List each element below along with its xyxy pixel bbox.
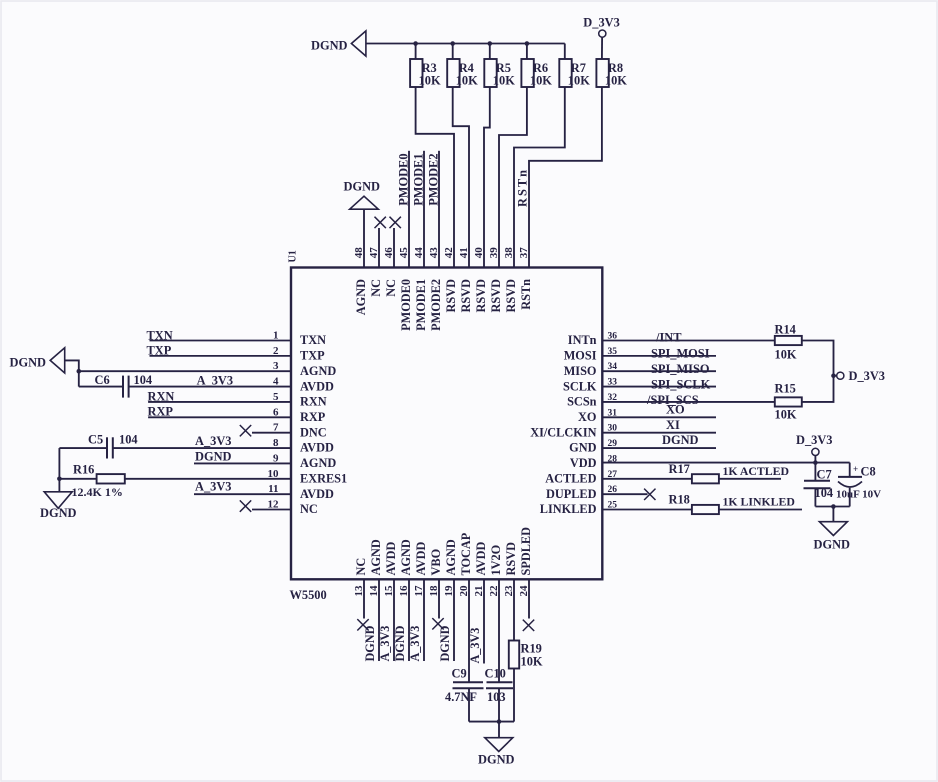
wire R14 to D_3V3: [802, 341, 834, 376]
svg-text:103: 103: [487, 690, 506, 704]
svg-text:10uF 10V: 10uF 10V: [836, 489, 881, 501]
wire top rail: [366, 43, 565, 45]
net PMODE1 wire pin 44: [423, 151, 425, 268]
net SPI_MISO wire pin 34: [602, 370, 716, 372]
resistor R4 10K: [452, 44, 454, 60]
svg-text:RSTn: RSTn: [516, 168, 530, 207]
svg-text:DGND: DGND: [814, 537, 851, 551]
wire R5 to chip pin: [484, 87, 490, 268]
svg-text:DGND: DGND: [393, 625, 407, 661]
capacitor C8 10uF 10V: [849, 463, 851, 477]
svg-text:NC: NC: [369, 279, 383, 297]
net TXN wire pin 1: [150, 340, 292, 342]
svg-text:NC: NC: [384, 279, 398, 297]
svg-text:GND: GND: [569, 441, 596, 455]
svg-text:104: 104: [134, 373, 153, 387]
svg-text:VDD: VDD: [570, 456, 597, 470]
svg-text:A_3V3: A_3V3: [195, 434, 231, 448]
svg-text:40: 40: [473, 247, 485, 259]
wire R6 to chip pin: [499, 87, 527, 268]
svg-text:SPI_MISO: SPI_MISO: [651, 362, 710, 376]
svg-text:C7: C7: [817, 467, 832, 481]
svg-text:DGND: DGND: [662, 433, 699, 447]
svg-text:10K: 10K: [568, 74, 590, 88]
wire C5 to R16 junction: [58, 448, 60, 491]
net DGND wire pin 9: [194, 462, 291, 464]
net XO wire pin 31: [602, 416, 716, 418]
svg-text:R14: R14: [775, 323, 796, 337]
svg-text:4.7NF: 4.7NF: [445, 690, 477, 704]
svg-text:W5500: W5500: [290, 588, 327, 602]
svg-text:DUPLED: DUPLED: [546, 487, 597, 501]
svg-text:10K: 10K: [775, 348, 797, 362]
wire R3 to chip pin: [416, 87, 454, 268]
resistor R8 10K: [596, 59, 608, 87]
svg-text:DGND: DGND: [40, 506, 77, 520]
svg-text:A_3V3: A_3V3: [408, 626, 422, 662]
wire bottom ground rail: [469, 721, 514, 723]
svg-text:R16: R16: [73, 462, 94, 476]
svg-text:+: +: [853, 464, 858, 474]
svg-text:10K: 10K: [521, 655, 543, 669]
svg-text:A_3V3: A_3V3: [378, 626, 392, 662]
svg-text:/INT: /INT: [655, 330, 682, 344]
svg-text:RXN: RXN: [300, 395, 327, 409]
net PMODE0 wire pin 45: [408, 151, 410, 268]
svg-text:RSTn: RSTn: [519, 279, 533, 310]
ground DGND bottom: [485, 738, 513, 752]
net A_3V3 wire pin 21: [483, 579, 485, 663]
svg-text:37: 37: [518, 247, 530, 259]
svg-text:XO: XO: [578, 410, 596, 424]
no-connect X pin 47: [378, 228, 380, 268]
no-connect X pin 18 VBO: [438, 579, 440, 618]
wire pin 22 1V2O to C10: [498, 579, 500, 682]
svg-text:VBO: VBO: [429, 549, 443, 576]
wire R7 to chip pin: [514, 87, 565, 268]
svg-text:R15: R15: [775, 381, 796, 395]
net A_3V3 wire pin 8: [113, 447, 291, 449]
net A_3V3 wire pin 17: [423, 579, 425, 661]
svg-text:INTn: INTn: [568, 333, 597, 347]
no-connect X pin 24 SPDLED: [528, 579, 530, 618]
svg-text:RSVD: RSVD: [489, 279, 503, 313]
svg-text:TOCAP: TOCAP: [459, 532, 473, 575]
net XI wire pin 30: [602, 432, 716, 434]
svg-text:41: 41: [458, 247, 470, 258]
svg-text:AGND: AGND: [369, 539, 383, 575]
wire C7 C8 ground rail: [815, 506, 849, 508]
svg-text:C9: C9: [452, 667, 467, 681]
svg-text:A_3V3: A_3V3: [197, 374, 233, 388]
svg-text:42: 42: [443, 247, 455, 259]
svg-text:AVDD: AVDD: [300, 379, 334, 393]
IC U1 W5500 body: [291, 268, 602, 580]
svg-text:AVDD: AVDD: [300, 487, 334, 501]
svg-text:RXP: RXP: [148, 405, 174, 419]
svg-text:AGND: AGND: [300, 364, 336, 378]
no-connect X pin 7 DNC: [252, 432, 291, 434]
svg-text:44: 44: [413, 247, 425, 259]
wire R15 to D_3V3: [802, 376, 834, 402]
wire pin 20 TOCAP to C9: [468, 579, 470, 682]
svg-text:A_3V3: A_3V3: [195, 480, 231, 494]
svg-text:10K: 10K: [775, 407, 797, 421]
net VDD wire pin 28: [602, 462, 849, 464]
svg-text:RSVD: RSVD: [444, 279, 458, 313]
no-connect X pin 12 NC: [252, 509, 291, 511]
svg-text:AGND: AGND: [300, 456, 336, 470]
svg-text:C10: C10: [485, 667, 506, 681]
svg-text:SCLK: SCLK: [563, 379, 597, 393]
net TXP wire pin 2: [150, 355, 292, 357]
net /INT wire pin 36: [602, 340, 775, 342]
svg-text:U1: U1: [288, 250, 299, 262]
svg-text:RXN: RXN: [148, 389, 175, 403]
power D_3V3 mid-right: [834, 375, 837, 377]
svg-text:10K: 10K: [530, 74, 552, 88]
svg-text:TXN: TXN: [300, 333, 326, 347]
svg-text:47: 47: [368, 247, 380, 259]
net A_3V3 wire pin 4: [129, 386, 291, 388]
net SPI_MOSI wire pin 35: [602, 355, 716, 357]
net RXP wire pin 6: [148, 416, 291, 418]
junction dot D_3V3 mid: [831, 373, 836, 378]
svg-text:SCSn: SCSn: [567, 395, 597, 409]
svg-text:PMODE1: PMODE1: [412, 153, 426, 205]
svg-text:TXP: TXP: [147, 344, 172, 358]
ground DGND below R16: [44, 492, 72, 509]
net RXN wire pin 5: [148, 401, 291, 403]
no-connect X pin 13 NC: [363, 579, 365, 618]
svg-text:D_3V3: D_3V3: [796, 433, 832, 447]
net ACTLED wire pin 27: [719, 478, 781, 480]
svg-text:PMODE0: PMODE0: [399, 279, 413, 331]
svg-text:MOSI: MOSI: [564, 349, 597, 363]
svg-text:RSVD: RSVD: [459, 279, 473, 313]
svg-text:48: 48: [353, 247, 365, 259]
no-connect X pin 26 DUPLED: [602, 493, 647, 495]
svg-text:C5: C5: [88, 432, 103, 446]
svg-text:DGND: DGND: [311, 39, 348, 53]
svg-text:NC: NC: [354, 558, 368, 576]
svg-text:RXP: RXP: [300, 410, 326, 424]
svg-text:R17: R17: [669, 462, 690, 476]
svg-text:C8: C8: [861, 465, 876, 479]
svg-text:AGND: AGND: [354, 279, 368, 315]
net LINKLED wire pin 25: [719, 509, 802, 511]
svg-text:NC: NC: [300, 502, 318, 516]
svg-text:SPDLED: SPDLED: [519, 527, 533, 576]
svg-text:104: 104: [815, 486, 834, 500]
svg-text:10K: 10K: [605, 74, 627, 88]
svg-text:LINKLED: LINKLED: [540, 502, 597, 516]
ground DGND right: [819, 522, 847, 536]
svg-text:A_3V3: A_3V3: [468, 628, 482, 664]
svg-text:XI: XI: [666, 418, 680, 432]
svg-text:MISO: MISO: [564, 364, 597, 378]
svg-text:AGND: AGND: [399, 539, 413, 575]
net PMODE2 wire pin 43: [438, 151, 440, 268]
svg-text:EXRES1: EXRES1: [300, 471, 347, 485]
svg-text:AVDD: AVDD: [474, 541, 488, 575]
net DGND wire pin 19: [453, 579, 455, 661]
net DGND wire pin 29: [602, 447, 716, 449]
svg-text:PMODE2: PMODE2: [429, 279, 443, 331]
svg-text:RSVD: RSVD: [504, 279, 518, 313]
svg-text:TXP: TXP: [300, 349, 325, 363]
junction dot VDD: [813, 460, 818, 465]
wire DGND to pin 48: [363, 209, 365, 267]
resistor R18 1K: [602, 509, 692, 511]
resistor R17 1K: [602, 478, 692, 480]
net SPI_SCLK wire pin 33: [602, 386, 716, 388]
svg-text:10K: 10K: [456, 74, 478, 88]
svg-text:1V2O: 1V2O: [489, 545, 503, 576]
resistor R3 10K: [415, 44, 417, 60]
svg-text:AVDD: AVDD: [384, 541, 398, 575]
svg-text:XI/CLCKIN: XI/CLCKIN: [530, 425, 596, 439]
svg-text:SPI_MOSI: SPI_MOSI: [651, 347, 710, 361]
svg-text:DNC: DNC: [300, 425, 327, 439]
svg-text:RSVD: RSVD: [474, 279, 488, 313]
svg-text:DGND: DGND: [344, 180, 381, 194]
svg-text:R18: R18: [669, 493, 690, 507]
svg-text:10K: 10K: [493, 74, 515, 88]
wire pin 3 AGND to DGND: [79, 370, 291, 372]
svg-text:SPI_SCLK: SPI_SCLK: [651, 377, 711, 391]
svg-text:TXN: TXN: [147, 328, 173, 342]
svg-text:PMODE2: PMODE2: [427, 153, 441, 205]
svg-text:1K ACTLED: 1K ACTLED: [723, 464, 790, 478]
junction dot R16: [57, 476, 62, 481]
svg-text:D_3V3: D_3V3: [849, 369, 885, 383]
svg-text:XO: XO: [666, 403, 685, 417]
wire R4 to chip pin: [453, 87, 469, 268]
svg-text:PMODE1: PMODE1: [414, 279, 428, 331]
svg-text:1K LINKLED: 1K LINKLED: [723, 494, 795, 508]
svg-text:104: 104: [119, 432, 138, 446]
svg-text:ACTLED: ACTLED: [545, 471, 596, 485]
svg-text:DGND: DGND: [478, 753, 515, 767]
svg-text:RSVD: RSVD: [504, 542, 518, 576]
svg-text:AGND: AGND: [444, 539, 458, 575]
net DGND wire pin 16: [408, 579, 410, 661]
net /SPI_SCS wire pin 32: [602, 401, 775, 403]
svg-text:DGND: DGND: [438, 625, 452, 661]
wire DGND junction: [65, 360, 79, 386]
resistor R5 10K: [489, 44, 491, 60]
svg-text:AVDD: AVDD: [414, 541, 428, 575]
svg-text:DGND: DGND: [195, 449, 232, 463]
resistor R6 10K: [526, 44, 528, 60]
svg-text:AVDD: AVDD: [300, 441, 334, 455]
net DGND wire pin 14: [378, 579, 380, 661]
wire R8 to chip pin: [529, 87, 602, 268]
svg-text:38: 38: [503, 247, 515, 259]
svg-text:46: 46: [383, 247, 395, 259]
junction dot pin3: [77, 369, 82, 374]
svg-text:DGND: DGND: [10, 356, 47, 370]
resistor R19 10K: [513, 579, 515, 640]
svg-text:45: 45: [398, 247, 410, 259]
svg-text:10K: 10K: [419, 74, 441, 88]
resistor R7 10K: [564, 44, 566, 60]
svg-text:12.4K 1%: 12.4K 1%: [72, 485, 123, 499]
svg-text:DGND: DGND: [363, 625, 377, 661]
net A_3V3 wire pin 15: [393, 579, 395, 661]
svg-text:R19: R19: [521, 642, 542, 656]
svg-text:PMODE0: PMODE0: [397, 153, 411, 205]
svg-text:D_3V3: D_3V3: [583, 16, 619, 30]
svg-text:43: 43: [428, 247, 440, 259]
no-connect X pin 46: [393, 228, 395, 268]
svg-text:39: 39: [488, 247, 500, 259]
svg-text:C6: C6: [95, 373, 110, 387]
wire D_3V3 to R8: [601, 37, 603, 59]
net A_3V3 wire pin 11: [194, 493, 291, 495]
capacitor C7 104: [814, 463, 816, 481]
